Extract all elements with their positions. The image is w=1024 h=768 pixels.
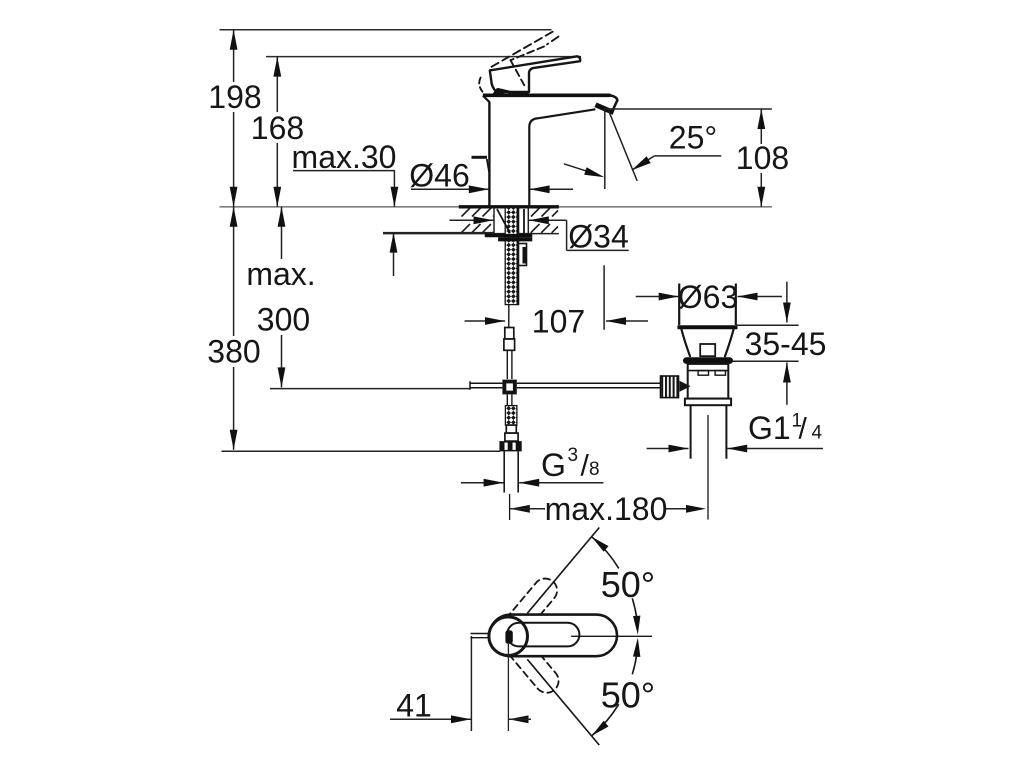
svg-text:/: / — [799, 413, 808, 446]
svg-text:4: 4 — [812, 423, 823, 444]
svg-text:3: 3 — [568, 445, 579, 466]
svg-text:max.: max. — [246, 256, 315, 292]
svg-text:35-45: 35-45 — [745, 326, 827, 362]
svg-text:G: G — [541, 447, 566, 483]
svg-text:8: 8 — [589, 459, 600, 480]
svg-text:50°: 50° — [601, 675, 655, 716]
svg-text:Ø46: Ø46 — [409, 158, 469, 194]
svg-text:max.30: max.30 — [292, 139, 397, 175]
svg-text:107: 107 — [532, 304, 585, 340]
svg-text:41: 41 — [396, 688, 432, 724]
svg-text:G1: G1 — [748, 410, 791, 446]
svg-text:50°: 50° — [601, 564, 655, 605]
svg-text:25°: 25° — [669, 120, 717, 156]
svg-text:Ø34: Ø34 — [568, 219, 628, 255]
svg-text:108: 108 — [736, 140, 789, 176]
svg-text:max.180: max.180 — [545, 491, 668, 527]
svg-text:380: 380 — [207, 334, 260, 370]
svg-text:Ø63: Ø63 — [678, 279, 738, 315]
svg-text:300: 300 — [257, 302, 310, 338]
